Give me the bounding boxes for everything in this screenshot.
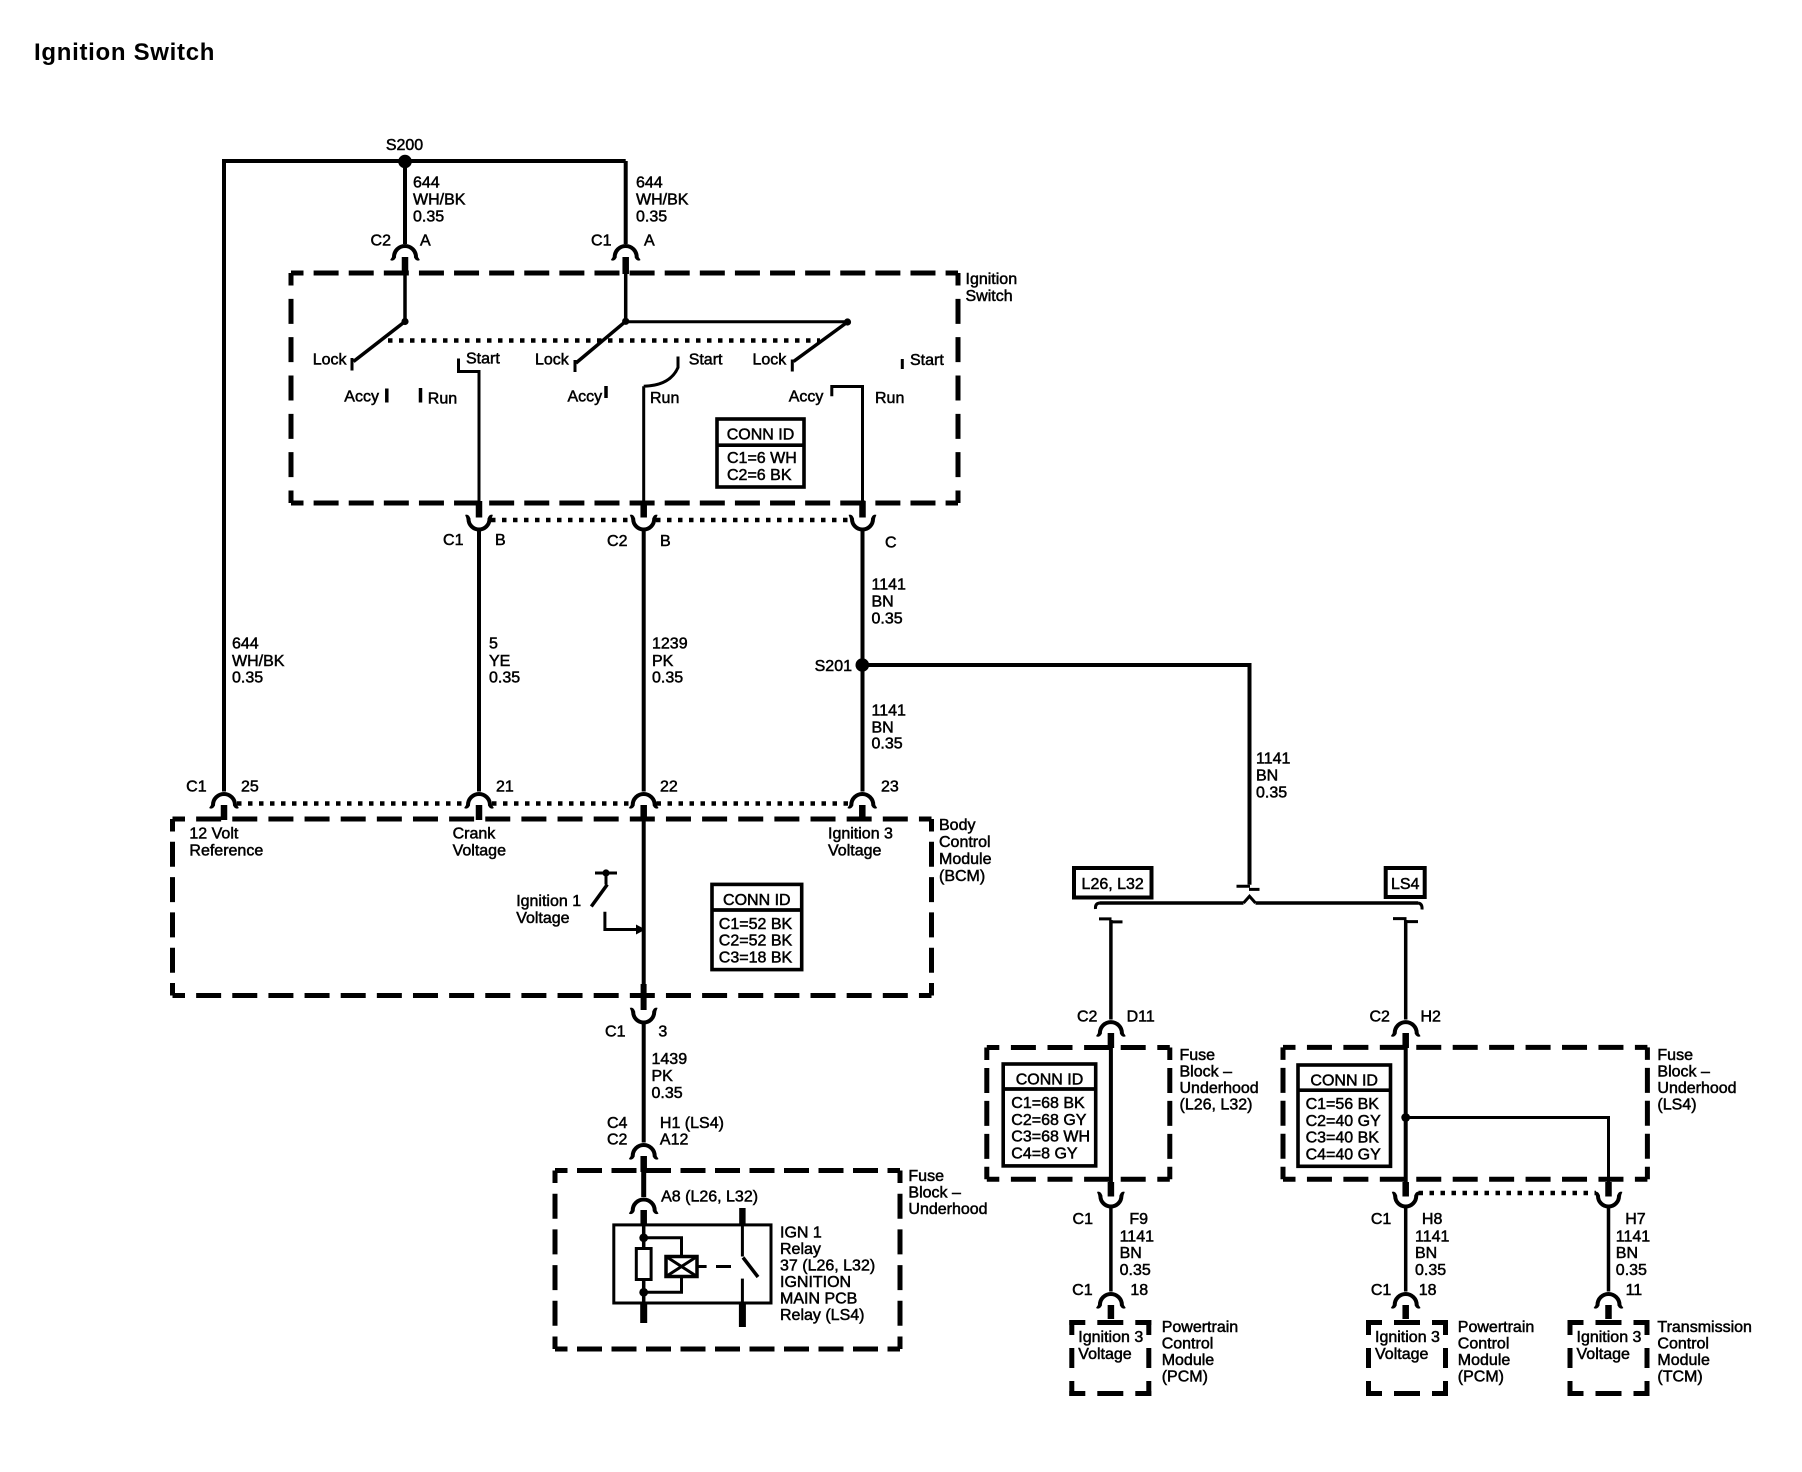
svg-text:C1: C1	[1371, 1211, 1392, 1228]
svg-text:Relay (LS4): Relay (LS4)	[780, 1307, 864, 1324]
svg-text:H7: H7	[1625, 1211, 1646, 1228]
svg-text:Voltage: Voltage	[828, 843, 881, 860]
svg-text:BN: BN	[1415, 1245, 1437, 1262]
svg-text:(L26, L32): (L26, L32)	[1180, 1097, 1253, 1114]
relay pin below box	[640, 1303, 647, 1323]
svg-text:1239: 1239	[652, 636, 688, 653]
svg-text:C: C	[885, 535, 897, 552]
svg-text:Run: Run	[650, 390, 679, 407]
svg-text:Ignition Switch: Ignition Switch	[34, 39, 215, 66]
svg-text:C3=68 WH: C3=68 WH	[1011, 1129, 1090, 1146]
connector pin C	[859, 501, 866, 518]
fuse block underhood (LS4) dashed box	[1283, 1045, 1647, 1050]
svg-text:Underhood: Underhood	[1657, 1080, 1736, 1097]
svg-text:1141: 1141	[1415, 1229, 1450, 1246]
svg-text:1141: 1141	[1120, 1229, 1155, 1246]
svg-text:18: 18	[1419, 1282, 1437, 1299]
switch blade pole 3	[794, 322, 848, 362]
svg-text:0.35: 0.35	[872, 611, 903, 628]
CONN ID box (BCM)	[712, 884, 802, 969]
relay switch blade	[743, 1258, 758, 1278]
svg-text:C2: C2	[1369, 1009, 1390, 1026]
relay coil element	[666, 1257, 697, 1277]
svg-text:1439: 1439	[652, 1051, 688, 1068]
svg-text:IGN 1: IGN 1	[780, 1225, 822, 1242]
svg-text:(PCM): (PCM)	[1458, 1369, 1504, 1386]
svg-text:PK: PK	[652, 1068, 674, 1085]
svg-text:C2: C2	[1077, 1009, 1098, 1026]
wire: ignition 1 1239 PK to BCM 22	[642, 531, 646, 792]
svg-text:(LS4): (LS4)	[1657, 1097, 1696, 1114]
accy contact pole 2	[604, 386, 608, 398]
LS4 tag box	[1386, 868, 1425, 897]
svg-text:C1: C1	[1371, 1282, 1392, 1299]
svg-text:C1=68 BK: C1=68 BK	[1011, 1095, 1085, 1112]
svg-text:Fuse: Fuse	[1180, 1047, 1216, 1064]
svg-text:Fuse: Fuse	[908, 1168, 944, 1185]
svg-text:BN: BN	[1256, 768, 1278, 785]
svg-text:C1: C1	[605, 1024, 626, 1041]
svg-text:L26, L32: L26, L32	[1082, 876, 1144, 893]
BCM connector dotted link	[237, 801, 849, 806]
svg-text:25: 25	[241, 779, 259, 796]
wire: pole 1 start contact down to C1-B	[459, 359, 480, 503]
svg-text:Fuse: Fuse	[1657, 1047, 1693, 1064]
svg-text:Ignition: Ignition	[966, 271, 1018, 288]
relay switch contact upper pin	[739, 1208, 745, 1225]
connector pin A8 (L26, L32)	[630, 1200, 658, 1213]
connector C2 pin B	[640, 501, 647, 518]
svg-text:Ignition 3: Ignition 3	[1375, 1329, 1440, 1346]
wire 1141 BN 0.35 to TCM	[1607, 1208, 1611, 1292]
wire 1141 BN 0.35 to PCM (LS4)	[1404, 1208, 1408, 1292]
svg-text:0.35: 0.35	[652, 1085, 683, 1102]
svg-text:Switch: Switch	[966, 288, 1013, 305]
splice S201	[856, 658, 870, 672]
svg-text:5: 5	[489, 636, 498, 653]
svg-text:WH/BK: WH/BK	[636, 192, 689, 209]
wire: branch to fuse block LS4	[1404, 920, 1408, 1020]
svg-text:0.35: 0.35	[232, 670, 263, 687]
BCM connector C1 pin 25	[210, 794, 238, 807]
svg-text:Control: Control	[1162, 1336, 1214, 1353]
svg-text:C1: C1	[186, 779, 207, 796]
svg-text:H8: H8	[1422, 1211, 1443, 1228]
svg-text:CONN ID: CONN ID	[1016, 1071, 1084, 1088]
svg-text:YE: YE	[489, 653, 510, 670]
lock contact pole 2	[574, 360, 577, 372]
wire: S201 to engine harness split	[862, 665, 1249, 885]
wire through fuse block LS4	[1404, 1048, 1408, 1182]
relay coil feed wire	[642, 1224, 646, 1249]
svg-text:Voltage: Voltage	[516, 910, 569, 927]
connector link dotted line H8-H7	[1419, 1191, 1597, 1196]
branch break LS4	[1393, 919, 1418, 922]
lock contact pole 1	[351, 358, 354, 371]
connector link dotted line	[491, 518, 850, 523]
svg-text:C1: C1	[591, 233, 612, 250]
connector C1 pin F9	[1108, 1182, 1115, 1197]
fuse block underhood dashed box (relay)	[555, 1168, 900, 1173]
svg-text:C2: C2	[371, 233, 392, 250]
svg-text:A12: A12	[660, 1132, 689, 1149]
svg-text:(TCM): (TCM)	[1657, 1369, 1702, 1386]
svg-text:Transmission: Transmission	[1657, 1319, 1752, 1336]
switch blade pole 1	[354, 322, 406, 362]
wire: S200 drop to ignition switch C1-A	[624, 161, 628, 244]
svg-text:F9: F9	[1129, 1211, 1148, 1228]
svg-text:37 (L26, L32): 37 (L26, L32)	[780, 1258, 875, 1275]
svg-text:H2: H2	[1421, 1009, 1442, 1026]
switch blade pole 2	[576, 321, 626, 363]
svg-text:H1 (LS4): H1 (LS4)	[660, 1115, 724, 1132]
relay armature linkage	[697, 1265, 731, 1268]
svg-text:1141: 1141	[872, 703, 907, 720]
svg-text:A: A	[420, 233, 431, 250]
harness split brace	[1100, 901, 1419, 905]
ignition 3 voltage box (PCM LS4)	[1366, 1320, 1448, 1396]
svg-text:Control: Control	[1458, 1336, 1510, 1353]
svg-text:Control: Control	[1657, 1336, 1709, 1353]
svg-text:Start: Start	[689, 352, 723, 369]
svg-text:C2: C2	[607, 533, 628, 550]
svg-text:D11: D11	[1127, 1009, 1155, 1026]
splice S200	[398, 155, 412, 169]
branch break L26	[1099, 919, 1123, 922]
svg-text:(BCM): (BCM)	[939, 868, 985, 885]
wire: branch to fuse block L26,L32	[1109, 920, 1113, 1020]
accy contact pole 1	[385, 389, 389, 403]
svg-text:C1=56 BK: C1=56 BK	[1306, 1096, 1380, 1113]
svg-text:C4=8 GY: C4=8 GY	[1011, 1145, 1078, 1162]
svg-text:Run: Run	[428, 391, 457, 408]
svg-text:IGNITION: IGNITION	[780, 1274, 851, 1291]
svg-text:B: B	[495, 532, 506, 549]
svg-text:Powertrain: Powertrain	[1458, 1319, 1534, 1336]
body control module dashed box	[173, 817, 932, 822]
svg-text:Start: Start	[910, 352, 944, 369]
start contact pole 3	[901, 359, 904, 369]
wire through fuse block L26	[1109, 1048, 1113, 1182]
svg-text:C1: C1	[443, 532, 464, 549]
svg-text:Powertrain: Powertrain	[1162, 1319, 1238, 1336]
svg-text:Body: Body	[939, 817, 975, 834]
svg-text:C2=6 BK: C2=6 BK	[727, 467, 792, 484]
svg-text:A: A	[644, 233, 655, 250]
svg-text:Lock: Lock	[753, 352, 788, 369]
svg-text:C3=18 BK: C3=18 BK	[719, 950, 793, 967]
svg-text:C1=6 WH: C1=6 WH	[727, 450, 797, 467]
svg-text:0.35: 0.35	[1120, 1262, 1151, 1279]
wire 1141 BN 0.35 to PCM (L26)	[1109, 1208, 1113, 1292]
connector C1 pin B	[476, 501, 483, 518]
svg-text:Voltage: Voltage	[1577, 1346, 1630, 1363]
svg-text:1141: 1141	[1256, 751, 1291, 768]
svg-text:Module: Module	[939, 851, 992, 868]
wire: pole 2 start contact curve down to C2-B	[644, 357, 678, 503]
wire: ignition 3 1141 BN to BCM 23	[861, 531, 865, 792]
svg-text:WH/BK: WH/BK	[413, 192, 466, 209]
switch pole 1 wire from C2-A	[403, 274, 407, 322]
svg-text:0.35: 0.35	[413, 209, 444, 226]
connector C1 pin H8	[1402, 1182, 1409, 1197]
wire into fuse block	[641, 1172, 646, 1197]
wire break at harness split	[1237, 886, 1260, 889]
svg-text:Block –: Block –	[1657, 1064, 1710, 1081]
svg-text:S201: S201	[815, 658, 852, 675]
ignition 3 voltage box (TCM)	[1568, 1320, 1650, 1396]
svg-text:Module: Module	[1458, 1352, 1511, 1369]
svg-text:Underhood: Underhood	[908, 1201, 987, 1218]
svg-text:LS4: LS4	[1391, 876, 1420, 893]
svg-text:CONN ID: CONN ID	[723, 892, 791, 909]
wire: crank voltage 5 YE to BCM 21	[477, 531, 481, 792]
svg-text:B: B	[660, 533, 671, 550]
switch pole 2 wire from C1-A	[624, 274, 628, 321]
svg-text:0.35: 0.35	[872, 736, 903, 753]
svg-text:23: 23	[881, 779, 899, 796]
svg-text:Voltage: Voltage	[1375, 1346, 1428, 1363]
svg-text:Module: Module	[1657, 1352, 1710, 1369]
svg-text:C2: C2	[607, 1132, 628, 1149]
svg-text:22: 22	[660, 779, 678, 796]
svg-text:Accy: Accy	[344, 389, 379, 406]
svg-text:CONN ID: CONN ID	[1310, 1072, 1378, 1089]
IGN 1 relay box	[614, 1225, 771, 1303]
run contact pole 1	[419, 388, 423, 403]
svg-text:C1=52 BK: C1=52 BK	[719, 916, 793, 933]
relay resistor	[636, 1249, 651, 1280]
svg-text:Underhood: Underhood	[1180, 1080, 1259, 1097]
L26, L32 tag box	[1074, 868, 1152, 898]
lock contact pole 3	[791, 360, 794, 372]
svg-text:0.35: 0.35	[1415, 1262, 1446, 1279]
svg-text:Run: Run	[875, 390, 904, 407]
svg-text:(PCM): (PCM)	[1162, 1369, 1208, 1386]
svg-text:Module: Module	[1162, 1352, 1215, 1369]
relay switch lower pin	[741, 1279, 744, 1303]
svg-text:Ignition 3: Ignition 3	[1078, 1329, 1143, 1346]
BCM connector pin 22	[630, 794, 658, 807]
svg-text:12 Volt: 12 Volt	[189, 826, 238, 843]
svg-text:C3=40 BK: C3=40 BK	[1306, 1130, 1380, 1147]
ignition 3 voltage box (PCM L26)	[1069, 1320, 1151, 1396]
svg-text:BN: BN	[1616, 1245, 1638, 1262]
node: pole 1 pivot	[401, 318, 408, 325]
svg-text:C1: C1	[1072, 1282, 1093, 1299]
svg-text:Block –: Block –	[1180, 1064, 1233, 1081]
svg-text:Block –: Block –	[908, 1185, 961, 1202]
svg-text:Crank: Crank	[453, 826, 497, 843]
svg-text:Relay: Relay	[780, 1241, 821, 1258]
svg-text:3: 3	[658, 1024, 667, 1041]
connector pin H7	[1605, 1182, 1612, 1197]
svg-text:C1: C1	[1073, 1211, 1094, 1228]
svg-text:Ignition 1: Ignition 1	[516, 893, 581, 910]
svg-text:CONN ID: CONN ID	[727, 427, 795, 444]
svg-text:Start: Start	[466, 351, 500, 368]
CONN ID box (LS4)	[1298, 1065, 1391, 1166]
svg-text:644: 644	[636, 175, 663, 192]
svg-text:Ignition 3: Ignition 3	[1577, 1329, 1642, 1346]
svg-text:1141: 1141	[872, 577, 907, 594]
svg-text:1141: 1141	[1616, 1229, 1651, 1246]
CONN ID box (L26, L32)	[1003, 1064, 1095, 1166]
svg-text:BN: BN	[1120, 1245, 1142, 1262]
wire: S200 drop to ignition switch C2-A	[403, 161, 407, 244]
svg-text:0.35: 0.35	[636, 209, 667, 226]
svg-text:Reference: Reference	[189, 843, 263, 860]
svg-text:11: 11	[1626, 1282, 1643, 1299]
node: LS4 internal junction	[1401, 1113, 1410, 1122]
svg-text:WH/BK: WH/BK	[232, 653, 285, 670]
svg-text:0.35: 0.35	[489, 670, 520, 687]
svg-text:0.35: 0.35	[1616, 1262, 1647, 1279]
svg-text:C4: C4	[607, 1115, 628, 1132]
wire: pole 3 accy contact to connector C	[832, 387, 863, 503]
svg-text:Voltage: Voltage	[453, 843, 506, 860]
svg-text:644: 644	[413, 175, 440, 192]
wire: LS4 jumper to H7	[1406, 1118, 1609, 1183]
svg-text:S200: S200	[386, 137, 423, 154]
node: pole 3 pivot	[844, 318, 851, 325]
svg-text:0.35: 0.35	[1256, 785, 1287, 802]
relay coil branch	[644, 1238, 682, 1293]
BCM connector pin 21	[465, 794, 493, 807]
svg-text:MAIN PCB: MAIN PCB	[780, 1291, 857, 1308]
ignition switch dashed box	[291, 271, 958, 276]
svg-text:21: 21	[496, 779, 514, 796]
svg-text:Voltage: Voltage	[1078, 1346, 1131, 1363]
svg-text:BN: BN	[872, 594, 894, 611]
wire 1439 PK 0.35	[642, 1024, 646, 1143]
svg-text:18: 18	[1130, 1282, 1148, 1299]
fuse block underhood (L26, L32) dashed box	[987, 1045, 1170, 1050]
svg-text:A8 (L26, L32): A8 (L26, L32)	[661, 1189, 758, 1206]
svg-text:644: 644	[232, 636, 259, 653]
CONN ID box (ignition switch)	[717, 419, 804, 487]
svg-text:PK: PK	[652, 653, 674, 670]
svg-text:Accy: Accy	[789, 389, 824, 406]
node: pole 2 pivot	[622, 318, 629, 325]
mechanical linkage dotted line	[388, 338, 820, 343]
svg-text:Lock: Lock	[313, 352, 348, 369]
svg-text:Ignition 3: Ignition 3	[828, 826, 893, 843]
svg-text:Accy: Accy	[568, 389, 603, 406]
svg-text:C4=40 GY: C4=40 GY	[1306, 1146, 1381, 1163]
link bar pole2 to pole3 pivot	[626, 320, 848, 323]
svg-text:C2=52 BK: C2=52 BK	[719, 933, 793, 950]
svg-text:0.35: 0.35	[652, 670, 683, 687]
svg-text:Lock: Lock	[535, 352, 570, 369]
connector C1 pin 3 below BCM	[641, 984, 647, 1010]
svg-text:C2=40 GY: C2=40 GY	[1306, 1113, 1381, 1130]
svg-text:BN: BN	[872, 720, 894, 737]
BCM connector pin 23	[849, 794, 877, 807]
wire 22 through BCM	[642, 820, 646, 985]
wire: main feed from S200 left and down to BCM C1-25	[224, 161, 626, 792]
svg-text:C2=68 GY: C2=68 GY	[1011, 1112, 1086, 1129]
svg-text:Control: Control	[939, 834, 991, 851]
